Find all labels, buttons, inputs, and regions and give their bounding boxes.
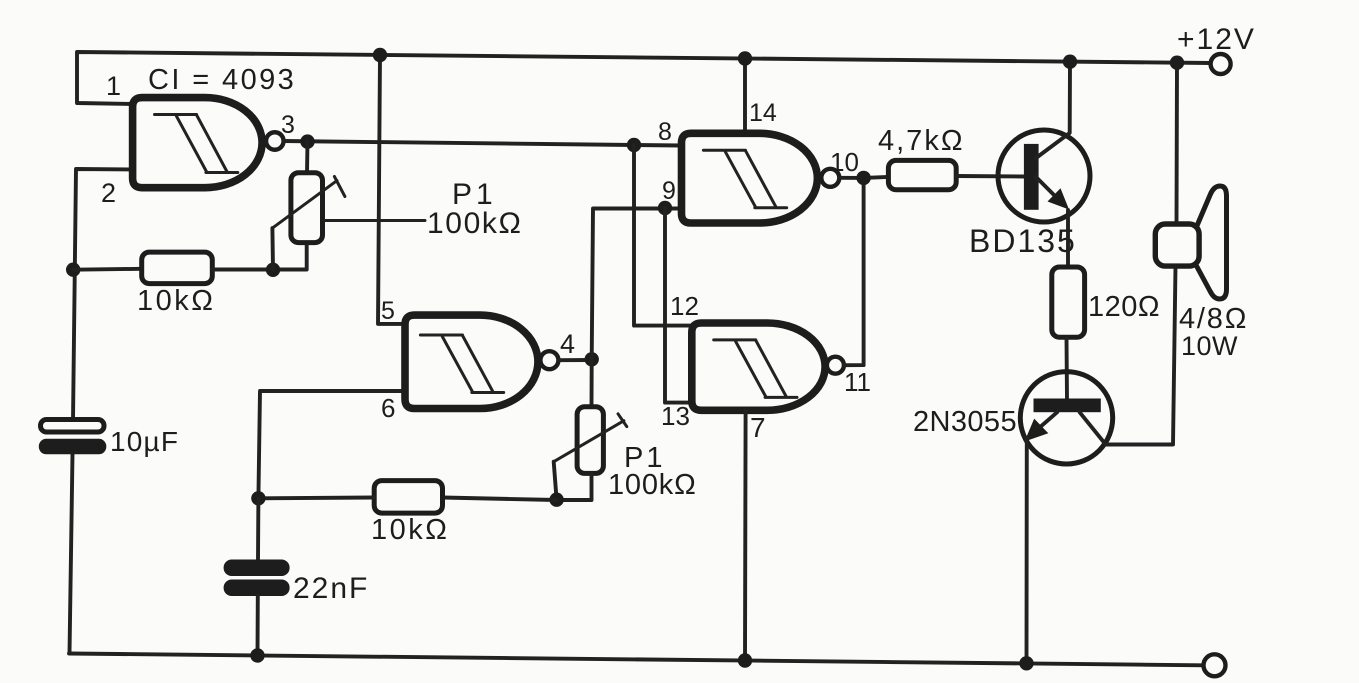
node: 22nF top junction <box>251 491 265 505</box>
svg-text:CI = 4093: CI = 4093 <box>148 64 296 96</box>
transistor Q1 base bar <box>1024 144 1039 210</box>
svg-text:9: 9 <box>662 177 676 205</box>
gate U1a body <box>133 98 262 188</box>
wire: pin4 bubble to junction <box>558 358 591 362</box>
wire: pin6 to 22nF <box>258 391 405 498</box>
wire: pot2 wiper down <box>554 462 557 500</box>
node: pot2 wiper junction <box>549 493 563 507</box>
potentiometer P1a body <box>291 173 323 243</box>
wire: pin7 to bottom rail <box>743 410 747 660</box>
node: rail junction pin5 <box>373 48 387 62</box>
transistor Q1 emitter arrowhead <box>1048 188 1070 209</box>
wire: R2 to 22nF node <box>258 496 374 501</box>
svg-text:10W: 10W <box>1181 331 1238 361</box>
wire: wiper junction to R2 <box>443 498 557 501</box>
svg-text:8: 8 <box>658 118 672 146</box>
svg-text:1: 1 <box>106 71 121 101</box>
transistor Q2 2N3055 circle <box>1020 372 1112 464</box>
svg-text:3: 3 <box>281 111 295 139</box>
wire: pin12 branch <box>634 145 692 326</box>
gate U1a output bubble pin3 <box>266 132 284 150</box>
wire: Q1 emitter to R4 <box>1066 210 1070 267</box>
svg-text:10: 10 <box>830 147 859 177</box>
terminal +12V circle <box>1211 54 1231 74</box>
wire: rail to pin5 <box>378 55 405 324</box>
node: rail junction 22nF <box>250 648 264 662</box>
transistor Q1 emitter line <box>1036 177 1058 199</box>
svg-text:6: 6 <box>381 393 395 423</box>
svg-text:10kΩ: 10kΩ <box>137 285 215 317</box>
svg-text:7: 7 <box>750 412 766 443</box>
wire: speaker top to rail <box>1175 63 1179 224</box>
svg-text:100kΩ: 100kΩ <box>608 469 697 501</box>
capacitor C2 22nF <box>224 560 290 597</box>
transistor Q1 BD135 circle <box>998 130 1090 222</box>
gate U1b hysteresis glyph <box>420 335 503 393</box>
node: pot1 top junction <box>300 134 314 148</box>
potentiometer P1b wiper arrow <box>554 414 627 462</box>
potentiometer P1a wiper arrow <box>272 177 345 229</box>
capacitor C1 10uF <box>39 420 107 455</box>
node: pin9/pin13 junction <box>658 201 672 215</box>
resistor R1 10k <box>142 252 213 284</box>
wire: R4 to Q2 base <box>1065 338 1069 400</box>
wire: rail to pin14 <box>743 59 747 134</box>
svg-text:5: 5 <box>381 297 395 325</box>
wire: 22nF bottom to rail <box>256 596 260 656</box>
wire: Q2 collector to speaker <box>1106 266 1176 444</box>
node: rail junction speaker <box>1170 56 1184 70</box>
wire: pot2 bottom lead <box>557 473 592 500</box>
node: junction pin2/10k <box>66 263 80 277</box>
wire: pot1 top lead <box>305 142 309 173</box>
wire: pot1 wiper down <box>270 228 275 270</box>
wire: +12V top rail <box>77 52 1211 104</box>
gate U1d body <box>692 323 825 410</box>
node: rail junction pin7 <box>738 653 752 667</box>
svg-text:10µF: 10µF <box>110 426 179 457</box>
label pointer line P1a <box>325 219 425 222</box>
svg-text:13: 13 <box>661 401 690 431</box>
wire: Q2 emitter down to rail <box>1025 438 1029 663</box>
svg-text:2: 2 <box>101 178 116 208</box>
svg-text:+12V: +12V <box>1177 23 1256 56</box>
wire: pin2 node to 10k R1 <box>73 267 142 272</box>
transistor Q1 collector line <box>1036 62 1070 158</box>
gate U1d hysteresis glyph <box>714 340 797 398</box>
node: rail junction pin14 <box>738 51 752 65</box>
speaker horn <box>1196 186 1227 299</box>
wire: R1 to pot1 bottom <box>212 243 306 270</box>
wire: 22nF node down <box>256 498 260 559</box>
node: wiper junction pot1 <box>266 263 280 277</box>
terminal 0V circle <box>1204 654 1226 676</box>
gate U1c body <box>682 133 818 223</box>
wire: bottom 0V rail <box>69 654 1204 666</box>
wire: pin3 output to pin8 <box>284 141 682 146</box>
wire: pin4 junction down to pot2 <box>590 359 594 406</box>
wire: pin11 output up to pin10 node <box>844 178 864 365</box>
svg-text:4,7kΩ: 4,7kΩ <box>878 125 965 157</box>
resistor R2 10k <box>374 481 442 513</box>
speaker driver box <box>1155 224 1199 266</box>
svg-text:4: 4 <box>560 329 575 359</box>
resistor R4 120 ohm <box>1052 267 1085 337</box>
node: rail junction Q1 collector <box>1063 55 1077 69</box>
svg-text:100kΩ: 100kΩ <box>427 207 522 240</box>
node: pin10/pin11 junction <box>856 171 870 185</box>
gate U1d output bubble pin11 <box>827 357 844 374</box>
potentiometer P1b body <box>577 407 603 474</box>
svg-text:BD135: BD135 <box>969 223 1077 259</box>
wire: 10uF bottom to bottom rail <box>70 454 73 654</box>
wire: left vertical pin2 to 10uF top <box>73 169 133 420</box>
svg-text:22nF: 22nF <box>293 572 369 605</box>
svg-text:2N3055: 2N3055 <box>913 406 1017 438</box>
wire: pin13 branch <box>665 208 692 403</box>
transistor Q2 emitter arrowhead <box>1025 419 1049 442</box>
node: pin8/pin12 junction <box>627 138 641 152</box>
wire: pin4 junction up and to pin9/13 <box>592 209 682 360</box>
svg-text:11: 11 <box>844 367 871 397</box>
svg-text:12: 12 <box>670 291 699 321</box>
wire: pin10 output to node <box>839 177 888 178</box>
resistor R3 4.7k <box>888 160 956 189</box>
gate U1b body <box>405 315 538 408</box>
svg-text:120Ω: 120Ω <box>1088 291 1160 323</box>
node: rail junction Q2 emitter <box>1019 656 1033 670</box>
transistor Q2 base bar <box>1034 399 1101 413</box>
svg-text:14: 14 <box>749 99 777 127</box>
svg-text:10kΩ: 10kΩ <box>371 514 449 546</box>
gate U1c output bubble pin10 <box>821 169 839 187</box>
transistor Q2 collector line <box>1080 412 1106 444</box>
gate U1a hysteresis glyph <box>155 115 238 173</box>
wire: R3 to BD135 base <box>956 174 1026 178</box>
gate U1c hysteresis glyph <box>703 150 786 208</box>
gate U1b output bubble pin4 <box>540 351 558 369</box>
node: pin4 junction <box>585 352 599 366</box>
transistor Q2 emitter line <box>1035 412 1057 431</box>
